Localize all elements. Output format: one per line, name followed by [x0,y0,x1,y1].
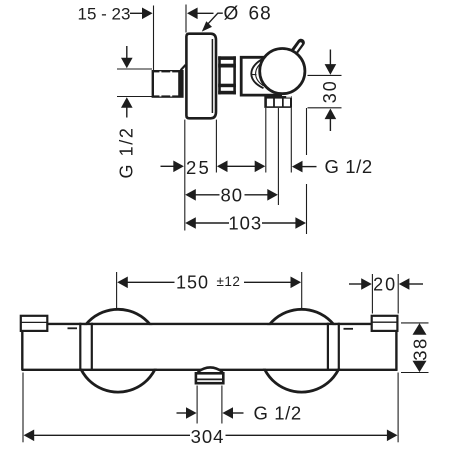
escutcheon disk (side view) [186,34,216,119]
G1/2 bottom right extension line [221,386,223,424]
svg-text:304: 304 [191,426,225,447]
bar top edge [47,323,373,325]
left body detail dash [68,327,78,329]
dimension 304 arrows and shaft [24,430,398,442]
left S-union nut tab [21,316,48,331]
right connection nut lines [328,323,339,370]
valve body [241,57,282,95]
label diameter 68 text [224,4,272,25]
G 1/2 left dimension top extension line [117,68,152,70]
extension line disk-left-face x=186 [185,5,187,33]
dimension 150 right extension line [301,272,303,310]
handle knob circle [260,49,305,94]
extension line outlet left x=265.8 [265,108,267,173]
dimension 15-23 left arrow [130,8,153,20]
svg-text:103: 103 [228,213,262,234]
dimension 20 left extension line [371,274,373,314]
svg-text:68: 68 [249,4,272,25]
pipe chamfer diagonal [181,65,186,70]
G 1/2 right label arrow [292,161,317,173]
extension line disk right lower x=216.4 [215,120,217,173]
G 1/2 left dimension down arrow [121,46,133,68]
G 1/2 left dimension bottom extension line [117,96,152,98]
dimension 38 arrows [413,323,427,372]
extension line outlet centre x=278.4 [277,108,279,205]
right body detail dash [344,328,354,330]
svg-text:20: 20 [373,274,397,294]
union nut with thread rings [218,56,236,94]
shower outlet thread block [264,96,292,108]
svg-text:150: 150 [176,273,209,293]
dimension 38 top extension line [401,322,429,324]
left connection nut lines [80,323,92,370]
svg-text:30: 30 [320,79,340,103]
dimension 30 bottom extension line [308,107,342,109]
svg-text:G 1/2: G 1/2 [254,403,302,424]
dimension 80 [185,185,278,206]
handle skirt crescent [251,58,263,88]
centre outlet bulge arc [198,367,223,372]
G1/2 bottom arrows [177,407,244,419]
dimension 20 right extension line upper [397,274,399,314]
handle lever stub [294,43,301,52]
svg-text:25: 25 [186,157,211,178]
dimension 30 up arrow [325,109,337,132]
extension line disk left lower x=184.8 [184,120,186,231]
bar bottom edge [22,369,398,371]
wall supply pipe (rect with thread dashes) [153,71,183,96]
right S-union nut tab [372,316,398,331]
right wall escutcheon circle [260,309,343,392]
svg-text:38: 38 [409,337,430,361]
left wall escutcheon circle [77,309,160,392]
extension line pipe-left x=153.5 [153,6,155,71]
extension line handle right upper x=306.5 [306,108,308,155]
dimension 150 arrows and shaft [117,277,301,289]
dimension 20 arrows [349,278,423,290]
dimension 38 bottom extension line [401,372,429,374]
label diameter 68 leader arrow [202,13,223,31]
extension line handle right lower x=306.5 [306,184,308,234]
dimension 304 right extension line [397,373,399,443]
G1/2 bottom left extension line [196,386,198,424]
right S-union body right edge [395,330,397,371]
svg-text:80: 80 [221,185,244,206]
dimension 30 top extension line [308,74,342,76]
dimension 103 [185,213,306,234]
centre outlet stub [196,373,223,383]
svg-text:15 - 23: 15 - 23 [78,5,131,24]
svg-text:Ø: Ø [224,4,239,25]
dimension 15-23 right arrow [187,8,214,20]
svg-text:G 1/2: G 1/2 [325,156,373,177]
extension line outlet right x=291.3 [290,108,292,173]
left S-union body left edge [21,316,23,371]
svg-text:±12: ±12 [217,274,241,289]
dimension 30 down arrow [325,50,337,75]
dimension 150 left extension line [116,272,118,311]
mixer bar body fill [24,325,397,369]
dimension 25 outer arrow [161,161,184,173]
svg-text:G 1/2: G 1/2 [116,126,136,178]
dimension 25 double arrow [217,161,265,173]
G 1/2 left dimension up arrow [121,97,133,117]
dimension 304 left extension line [22,373,24,443]
